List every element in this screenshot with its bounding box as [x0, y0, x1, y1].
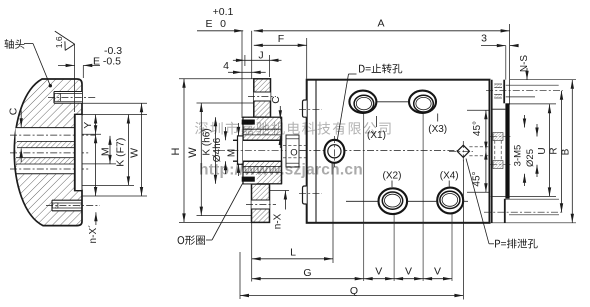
- left view band3 centerline: [10, 168, 90, 170]
- lower left port boss: [303, 186, 307, 204]
- dim G: [252, 278, 364, 280]
- dim M middle: [238, 123, 240, 136]
- svg-text:E: E: [205, 18, 212, 30]
- edge ext B top: [510, 79, 576, 81]
- ext X3 vertical: [422, 92, 424, 281]
- left view upper hole centerline: [48, 96, 96, 98]
- edge lines right bottom: [491, 195, 556, 197]
- hub lower half (hatched): [243, 161, 282, 184]
- left view band2 centerline: [10, 152, 90, 154]
- svg-text:H: H: [170, 147, 182, 155]
- svg-text:(X2): (X2): [383, 170, 402, 181]
- hub upper half (hatched): [243, 117, 282, 140]
- 45 deg extension stubs: [467, 109, 490, 111]
- svg-text:M: M: [99, 147, 111, 156]
- svg-text:n-X: n-X: [273, 213, 284, 229]
- port hole X1: [349, 91, 376, 113]
- dim Y: [95, 115, 97, 135]
- svg-text:K (F7): K (F7): [114, 138, 126, 167]
- svg-text:C: C: [8, 107, 20, 115]
- dim E top: [197, 30, 243, 32]
- hidden lines shaft into block: [283, 144, 308, 146]
- left view shaft-head body (hatched): [14, 79, 82, 226]
- dim W left: [141, 103, 143, 196]
- watermark company name: [195, 122, 391, 135]
- dim W middle: [200, 103, 202, 216]
- middle view upper flange (hatched): [254, 79, 271, 117]
- upper left port boss: [303, 100, 307, 117]
- svg-text:R: R: [549, 147, 560, 154]
- leader O形圈: [212, 184, 243, 241]
- dim V3: [423, 278, 452, 280]
- svg-text:Q: Q: [350, 285, 358, 297]
- svg-text:Ø25: Ø25: [525, 149, 536, 167]
- svg-text:45°: 45°: [472, 171, 483, 186]
- dim 45 lower: [485, 151, 487, 193]
- ext X2 vertical: [393, 188, 395, 281]
- svg-text:A: A: [377, 17, 384, 29]
- svg-text:N-S: N-S: [519, 55, 530, 73]
- left view shaft band 3: [17, 164, 75, 173]
- dim E left view: [58, 64, 75, 66]
- leader D: [349, 73, 357, 75]
- dim 45 upper: [485, 110, 487, 150]
- dim K(h6): [215, 117, 217, 184]
- svg-text:G: G: [303, 267, 311, 279]
- dim A: [254, 30, 510, 32]
- svg-text:L: L: [290, 247, 296, 259]
- svg-text:W: W: [129, 148, 141, 158]
- dim R: [561, 91, 563, 213]
- upper boss centerline: [299, 108, 322, 110]
- dim V2: [394, 278, 423, 280]
- top port thread stipple: [494, 84, 502, 88]
- bearing sleeve block: [286, 135, 299, 167]
- svg-text:Y: Y: [82, 122, 94, 129]
- main centerline right view: [300, 150, 470, 152]
- shaft outline: [233, 139, 238, 141]
- svg-text:W: W: [187, 147, 199, 158]
- N-S leader arrow: [526, 68, 528, 80]
- upper flange hole centerline: [248, 96, 276, 98]
- dim 3-M5: [524, 115, 526, 128]
- lower seal O-ring (black): [242, 177, 255, 182]
- dim B: [571, 80, 573, 223]
- left view upper threaded hole X': [54, 92, 82, 104]
- pump body outline: [307, 80, 490, 223]
- lower flange bolt hole: [252, 200, 270, 209]
- lower boss centerline: [299, 192, 322, 194]
- lower seal pocket: [244, 175, 257, 184]
- left view shaft band 2: [16, 148, 75, 158]
- svg-text:J: J: [258, 50, 263, 62]
- svg-text:1.6: 1.6: [54, 36, 64, 48]
- svg-text:F: F: [278, 33, 284, 45]
- leader P: [466, 159, 489, 244]
- main centerline middle: [218, 150, 308, 152]
- middle view lower flange (hatched): [252, 184, 270, 222]
- dim phi25: [536, 124, 538, 137]
- mounting plate line: [315, 80, 317, 223]
- dim U: [549, 104, 551, 196]
- svg-text:3: 3: [481, 33, 487, 45]
- bottom ext verticals: [251, 222, 253, 281]
- svg-text:Ø4h6: Ø4h6: [212, 137, 223, 162]
- svg-text:V: V: [405, 266, 412, 278]
- upper seal pocket: [244, 118, 257, 127]
- M5 hole lower: [493, 161, 503, 169]
- dim M left: [109, 136, 111, 164]
- svg-text:+0.1: +0.1: [213, 6, 234, 18]
- leader 轴头: [24, 43, 33, 45]
- port hole X2: [379, 188, 408, 214]
- bottom channel centerline: [484, 211, 563, 213]
- dim C left view: [20, 110, 22, 127]
- drain passage hidden lines: [469, 146, 489, 148]
- left view hatched strip 2: [16, 158, 75, 164]
- dim J: [233, 59, 245, 61]
- left view mounting plate edge: [75, 115, 82, 191]
- extension lines left view right side: [82, 114, 147, 116]
- left view lower hole centerline: [46, 205, 100, 207]
- svg-text:0: 0: [220, 18, 226, 30]
- label 轴头: [4, 39, 24, 49]
- svg-text:B: B: [561, 148, 572, 155]
- upper seal (black): [242, 120, 255, 125]
- dim F: [254, 44, 307, 46]
- left view hatched strip 1: [17, 142, 75, 148]
- hub right face: [281, 117, 283, 184]
- dim phi4h6: [225, 127, 227, 140]
- dim line x95 lower: [95, 134, 97, 196]
- top port channel walls: [491, 80, 493, 223]
- label D=止转孔: [359, 64, 402, 74]
- ext X4 vertical: [451, 187, 453, 281]
- hole connect line bottom: [346, 200, 379, 202]
- svg-text:(X3): (X3): [428, 124, 447, 135]
- hole connect line top: [376, 101, 409, 103]
- dim L: [252, 258, 333, 260]
- svg-text:M: M: [227, 149, 238, 157]
- left view lower threaded hole X': [52, 200, 79, 211]
- M5 hole upper: [493, 133, 503, 141]
- svg-text:4: 4: [223, 60, 229, 72]
- svg-text:V: V: [434, 266, 441, 278]
- P drain hole (diamond): [457, 145, 469, 157]
- svg-text:45°: 45°: [472, 121, 483, 136]
- label O形圈: [178, 235, 205, 245]
- top extension verticals: [241, 31, 243, 118]
- svg-text:U: U: [537, 147, 548, 154]
- top port centerline: [486, 90, 563, 92]
- svg-text:V: V: [375, 266, 382, 278]
- lower flange hole ext + n-X arrow: [270, 190, 290, 192]
- edge ext B bottom: [490, 222, 576, 224]
- D hole vertical centerline: [333, 136, 335, 167]
- dim V1: [364, 278, 394, 280]
- svg-text:O: O: [290, 148, 297, 159]
- dim H: [183, 79, 185, 223]
- M5 circle hidden lines: [494, 141, 496, 161]
- surface finish symbol 1.6: [55, 31, 75, 44]
- upper flange bolt hole: [254, 92, 271, 101]
- edge view seal bar (black): [505, 103, 509, 198]
- lower flange hole centerline: [246, 204, 276, 206]
- dim K(F7): [127, 115, 129, 186]
- dim Q: [240, 295, 463, 297]
- svg-text:3-M5: 3-M5: [513, 145, 524, 167]
- D hole: [324, 140, 344, 163]
- port hole X4: [437, 188, 463, 214]
- left view band1 centerline: [10, 134, 96, 136]
- shaft shoulder: [238, 136, 244, 164]
- edge lines right top: [506, 84, 559, 86]
- ext X1 vertical: [363, 92, 365, 281]
- label P=排泄孔: [495, 239, 538, 249]
- svg-text:http://www.szjarch.cn: http://www.szjarch.cn: [199, 162, 363, 179]
- left view shaft band 1: [16, 128, 83, 142]
- svg-text:(X4): (X4): [440, 170, 459, 181]
- svg-text:C: C: [270, 96, 282, 104]
- port hole X3: [409, 91, 436, 113]
- dim 4 top: [228, 71, 242, 73]
- bottom drain channel walls: [504, 199, 506, 223]
- watermark url: [199, 162, 363, 179]
- extension lines middle view left: [179, 78, 254, 80]
- svg-text:n-X´: n-X´: [87, 225, 99, 244]
